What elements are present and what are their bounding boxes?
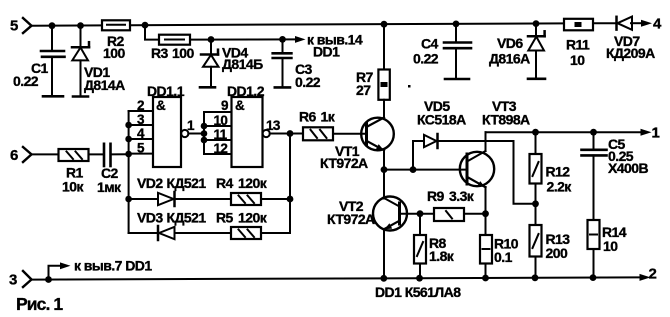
svg-text:10: 10 bbox=[214, 113, 228, 128]
node junction VT2 emitter rail bbox=[380, 275, 387, 282]
svg-text:0.22: 0.22 bbox=[13, 73, 39, 89]
wire pin5 stub bbox=[129, 153, 153, 155]
arrow terminal 4 bbox=[641, 20, 652, 27]
node junction pin11 bbox=[201, 137, 208, 144]
svg-text:3.3к: 3.3к bbox=[449, 188, 475, 204]
svg-text:КД521: КД521 bbox=[167, 175, 207, 191]
node junction R4 right bbox=[287, 196, 294, 203]
wire DD1.1 out to DD1.2 bus bbox=[188, 133, 204, 135]
svg-text:C4: C4 bbox=[421, 36, 439, 52]
wire emitter row to VT3 base bbox=[384, 169, 466, 171]
wire C2 to bus bbox=[111, 153, 129, 155]
wire pin10 stub bbox=[204, 125, 232, 127]
diode VD3 bbox=[158, 226, 175, 240]
svg-text:КТ972А: КТ972А bbox=[327, 211, 375, 227]
diode VD2 bbox=[158, 192, 175, 206]
arrow to pin14 DD1 bbox=[295, 36, 306, 43]
node junction R8 rail bbox=[416, 275, 423, 282]
node junction VD1 top bbox=[77, 22, 84, 29]
capacitor C5 bbox=[582, 132, 607, 220]
node junction C4 top bbox=[453, 21, 460, 28]
stray ink dot bbox=[408, 85, 411, 88]
node junction R13 rail bbox=[532, 274, 539, 281]
svg-text:100: 100 bbox=[172, 45, 194, 61]
svg-text:1к: 1к bbox=[321, 109, 336, 125]
node junction in wire bbox=[201, 130, 208, 137]
transistor Q1 VT1 bbox=[361, 118, 394, 151]
wire VT3 collector to out rail bbox=[485, 132, 487, 151]
resistor R3 bbox=[159, 35, 190, 45]
svg-text:R6: R6 bbox=[299, 109, 317, 125]
resistor R6 bbox=[303, 127, 333, 140]
svg-text:&: & bbox=[235, 98, 245, 113]
zener VD1 bbox=[72, 26, 89, 97]
resistor R1 bbox=[59, 149, 89, 161]
svg-text:VD3: VD3 bbox=[137, 210, 163, 226]
node bus DD1.1 inputs bbox=[128, 111, 130, 233]
wire R3 to C3 bbox=[190, 38, 295, 40]
svg-text:R4: R4 bbox=[216, 175, 234, 191]
svg-text:5: 5 bbox=[137, 141, 145, 156]
svg-text:Д814Б: Д814Б bbox=[222, 56, 263, 72]
node junction VD2 row left bbox=[125, 196, 132, 203]
node junction VD4 top bbox=[208, 36, 215, 43]
resistor R5 bbox=[231, 227, 261, 239]
wire pin2 stub bbox=[129, 110, 153, 112]
node junction R10 rail bbox=[482, 275, 489, 282]
node junction VT3 emitter R10 bbox=[482, 210, 489, 217]
terminal 5 bbox=[23, 18, 32, 33]
node junction pin5 bbox=[125, 151, 132, 158]
terminal 3 bbox=[23, 271, 32, 287]
resistor R14 bbox=[588, 220, 600, 249]
svg-text:13: 13 bbox=[266, 118, 281, 133]
wire R10 drop bbox=[485, 214, 487, 235]
svg-text:2: 2 bbox=[649, 266, 657, 283]
node junction output13 bbox=[287, 130, 294, 137]
wire pin4 stub bbox=[129, 138, 153, 140]
wire VT2 collector up bbox=[383, 170, 385, 199]
svg-text:100: 100 bbox=[103, 45, 125, 61]
transistor Q2 VT2 bbox=[373, 197, 407, 231]
wire pin3 stub bbox=[129, 124, 153, 126]
resistor R9 bbox=[434, 208, 464, 221]
svg-text:0.1: 0.1 bbox=[494, 249, 513, 265]
wire VT1 emitter down bbox=[383, 150, 385, 170]
wire bottom rail bbox=[31, 277, 640, 279]
node junction R12 top bbox=[532, 129, 539, 136]
diode VD7 bbox=[617, 17, 633, 30]
svg-text:3: 3 bbox=[137, 112, 145, 127]
svg-text:R11: R11 bbox=[566, 37, 590, 53]
wire VD3 to R5 bbox=[175, 232, 231, 234]
transistor Q3 VT3 bbox=[460, 151, 494, 187]
svg-text:КД209А: КД209А bbox=[606, 45, 655, 61]
wire R6 to VT1 base bbox=[333, 133, 366, 135]
svg-text:к выв.7 DD1: к выв.7 DD1 bbox=[74, 258, 152, 274]
wire output1 rail bbox=[486, 131, 642, 133]
node junction pin10 bbox=[201, 123, 208, 130]
svg-text:DD1: DD1 bbox=[313, 44, 340, 60]
resistor R12 bbox=[530, 154, 542, 184]
svg-text:9: 9 bbox=[221, 98, 228, 113]
svg-text:Д816А: Д816А bbox=[489, 51, 530, 67]
svg-text:10: 10 bbox=[570, 52, 585, 68]
node junction R7 top bbox=[381, 21, 388, 28]
svg-text:&: & bbox=[156, 98, 166, 113]
svg-text:200: 200 bbox=[546, 245, 568, 261]
wire R8 drop bbox=[419, 214, 421, 235]
node junction R14 rail bbox=[590, 274, 597, 281]
wire VT2 base to R9 bbox=[400, 213, 435, 215]
svg-text:0.22: 0.22 bbox=[413, 51, 439, 67]
svg-text:1мк: 1мк bbox=[97, 179, 122, 195]
capacitor C4 bbox=[444, 24, 471, 79]
wire R4 to right bus bbox=[261, 198, 290, 200]
resistor R7 bbox=[378, 70, 389, 100]
wire rail to R7 bbox=[383, 24, 385, 69]
svg-text:4: 4 bbox=[137, 126, 145, 141]
wire pin9 stub bbox=[204, 111, 232, 113]
arrow terminal 1 bbox=[641, 129, 652, 136]
capacitor C2 bbox=[104, 144, 111, 166]
svg-text:DD1.2: DD1.2 bbox=[227, 83, 265, 99]
svg-text:120к: 120к bbox=[238, 175, 268, 191]
svg-text:2.2к: 2.2к bbox=[547, 179, 573, 195]
svg-text:VD2: VD2 bbox=[137, 175, 163, 191]
wire VT2 emitter down bbox=[383, 229, 385, 279]
svg-text:R9: R9 bbox=[427, 188, 445, 204]
wire pin11 stub bbox=[204, 139, 232, 141]
capacitor C1 bbox=[41, 26, 65, 97]
svg-text:DD1 К561ЛА8: DD1 К561ЛА8 bbox=[375, 284, 461, 300]
svg-text:5: 5 bbox=[10, 18, 18, 35]
svg-text:R3: R3 bbox=[151, 45, 169, 61]
node bus DD1.2 inputs bbox=[203, 112, 205, 154]
op-amp U2 gate DD1.2 bbox=[232, 97, 270, 167]
wire DD1.2 out bbox=[270, 133, 303, 135]
zener VD6 bbox=[528, 24, 545, 79]
node junction C5 top bbox=[590, 129, 597, 136]
wire VD3 row bbox=[129, 232, 157, 234]
wire R5 to right bus bbox=[261, 232, 290, 234]
arrow to pin7 DD1 bbox=[60, 262, 71, 269]
svg-text:1: 1 bbox=[652, 125, 660, 142]
svg-text:10к: 10к bbox=[62, 179, 84, 195]
svg-text:27: 27 bbox=[356, 82, 371, 98]
wire drop to R3 bbox=[145, 25, 159, 39]
wire feedback right bus bbox=[289, 134, 291, 234]
wire R14 to rail bbox=[593, 249, 595, 278]
resistor R13 bbox=[530, 225, 542, 257]
resistor R10 bbox=[480, 235, 492, 264]
wire VD2 row bbox=[129, 198, 158, 200]
terminal 6 bbox=[23, 147, 32, 162]
svg-text:1.8к: 1.8к bbox=[429, 248, 455, 264]
wire R12 top bbox=[535, 132, 537, 154]
svg-text:12: 12 bbox=[214, 141, 228, 156]
wire pin12 stub bbox=[204, 153, 232, 155]
node junction pin4 bbox=[125, 136, 132, 143]
node junction R8 top bbox=[417, 210, 424, 217]
svg-text:КТ898А: КТ898А bbox=[482, 112, 530, 128]
resistor R11 bbox=[564, 19, 593, 31]
svg-text:1: 1 bbox=[187, 118, 195, 133]
node junction pin7 tap bbox=[45, 276, 52, 283]
wire VT3 emitter down bbox=[485, 187, 487, 214]
svg-text:КТ972А: КТ972А bbox=[320, 155, 368, 171]
arrow terminal 2 bbox=[640, 274, 651, 281]
svg-text:R5: R5 bbox=[216, 210, 234, 226]
wire VD2 to R4 bbox=[175, 198, 231, 200]
diode VD5 bbox=[424, 134, 438, 148]
wire R8 to rail bbox=[419, 264, 421, 279]
wire top rail right of R2 bbox=[130, 23, 564, 25]
node junction VD5 anode bbox=[410, 166, 417, 173]
svg-text:Х400В: Х400В bbox=[608, 160, 648, 176]
wire VD5 cathode to R12 bottom bbox=[439, 141, 536, 204]
svg-text:КД521: КД521 bbox=[167, 210, 207, 226]
capacitor C3 bbox=[273, 39, 292, 87]
svg-text:11: 11 bbox=[214, 127, 228, 142]
wire R13 to rail bbox=[535, 257, 537, 278]
svg-text:4: 4 bbox=[653, 16, 662, 33]
node junction VT1-VT2 bbox=[381, 166, 388, 173]
wire VD7 to arrow 4 bbox=[631, 22, 641, 24]
wire R10 to rail bbox=[485, 264, 487, 279]
svg-text:6: 6 bbox=[10, 147, 18, 164]
svg-text:120к: 120к bbox=[238, 210, 268, 226]
svg-text:DD1.1: DD1.1 bbox=[147, 83, 185, 99]
node junction R12-R13 bbox=[532, 200, 539, 207]
wire VD5 anode riser bbox=[413, 141, 424, 170]
svg-text:VD6: VD6 bbox=[497, 35, 523, 51]
zener VD4 bbox=[200, 40, 219, 88]
node junction pin3 bbox=[125, 122, 132, 129]
resistor R2 bbox=[102, 20, 130, 30]
wire R11 to VD7 bbox=[593, 22, 616, 24]
wire R12 bottom bbox=[535, 184, 537, 226]
resistor R4 bbox=[231, 193, 261, 205]
wire R9 to VT3 emitter bbox=[464, 213, 486, 215]
wire R7 to VT1 collector bbox=[383, 100, 385, 118]
wire top rail bbox=[31, 24, 102, 26]
svg-text:3: 3 bbox=[9, 272, 17, 289]
svg-text:КС518А: КС518А bbox=[417, 112, 466, 128]
svg-text:Д814А: Д814А bbox=[84, 77, 125, 93]
node junction C3 top bbox=[279, 36, 286, 43]
wire R1 to C2 bbox=[89, 153, 104, 155]
svg-text:10: 10 bbox=[603, 238, 618, 254]
resistor R8 bbox=[414, 235, 426, 264]
node junction R2-R3 bbox=[142, 22, 149, 29]
svg-text:2: 2 bbox=[137, 98, 144, 113]
wire pin7 tap riser bbox=[49, 266, 61, 280]
node junction VD6 top bbox=[533, 20, 540, 27]
svg-text:0.22: 0.22 bbox=[295, 74, 321, 90]
op-amp U1 gate DD1.1 bbox=[153, 97, 188, 167]
svg-text:R12: R12 bbox=[546, 164, 571, 180]
wire row6 bbox=[31, 153, 58, 155]
svg-text:Рис. 1: Рис. 1 bbox=[16, 294, 63, 314]
node junction C1 top bbox=[49, 22, 56, 29]
